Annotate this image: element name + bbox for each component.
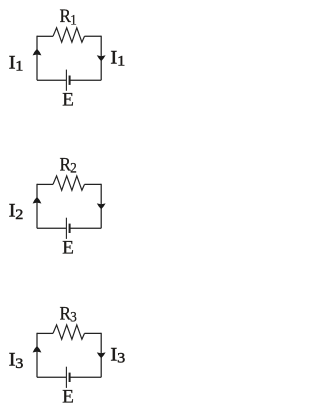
circuit 3 — [33, 325, 106, 388]
arrowhead I2 up (left wire) — [33, 197, 42, 204]
svg-text:R1: R1 — [60, 6, 77, 29]
wire bottom-left segment — [37, 376, 66, 378]
wire bottom-right segment — [70, 79, 101, 81]
battery E short plate — [69, 76, 71, 85]
arrowhead I1 up (left wire) — [33, 49, 42, 56]
circuit 2 — [33, 176, 106, 239]
wire left vertical — [36, 333, 38, 378]
resistor R1 — [53, 28, 85, 42]
svg-text:R2: R2 — [60, 154, 77, 177]
arrowhead I3 down (right wire) — [97, 352, 106, 358]
circuit 1 — [33, 28, 106, 91]
wire top-right segment — [85, 183, 102, 185]
wire top-left segment — [37, 35, 53, 37]
svg-text:I3: I3 — [110, 344, 125, 366]
wire right vertical — [100, 333, 102, 378]
svg-text:E: E — [62, 238, 74, 259]
wire top-left segment — [37, 332, 53, 334]
wire top-right segment — [85, 35, 102, 37]
wire bottom-left segment — [37, 227, 66, 229]
battery E long plate — [65, 218, 67, 239]
arrowhead I1 down (right wire) — [97, 55, 106, 61]
wire right vertical — [100, 184, 102, 229]
wire bottom-left segment — [37, 79, 66, 81]
svg-text:I3: I3 — [9, 350, 24, 372]
resistor R3 — [53, 325, 85, 339]
svg-text:I1: I1 — [9, 52, 24, 74]
arrowhead I3 up (left wire) — [33, 346, 42, 353]
svg-text:E: E — [62, 90, 74, 111]
wire left vertical — [36, 36, 38, 80]
svg-text:E: E — [62, 387, 74, 408]
battery E short plate — [69, 373, 71, 382]
arrowhead I2 down (right wire) — [97, 203, 106, 209]
svg-text:I2: I2 — [9, 201, 24, 223]
wire top-left segment — [37, 183, 53, 185]
battery E long plate — [65, 70, 67, 91]
svg-text:R3: R3 — [60, 303, 77, 326]
svg-text:I1: I1 — [110, 47, 125, 69]
wire top-right segment — [85, 332, 102, 334]
battery E short plate — [69, 224, 71, 233]
wire right vertical — [100, 36, 102, 80]
battery E long plate — [65, 367, 67, 388]
resistor R2 — [53, 176, 85, 190]
wire bottom-right segment — [70, 376, 101, 378]
wire bottom-right segment — [70, 227, 101, 229]
wire left vertical — [36, 184, 38, 229]
